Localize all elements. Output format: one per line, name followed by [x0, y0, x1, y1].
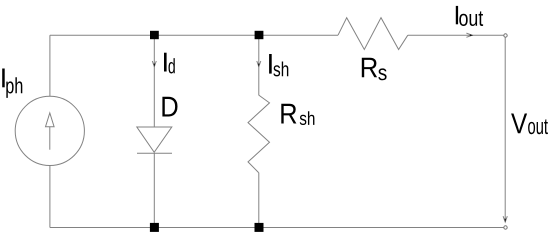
- node square bottom shunt: [255, 223, 264, 232]
- wire shunt branch upper: [258, 35, 260, 95]
- arrow I_d wings: [152, 61, 156, 67]
- label Ish (sh): [273, 62, 288, 77]
- label Vout (out): [528, 119, 548, 134]
- wire left side upper: [49, 35, 51, 96]
- label Rsh (sh): [300, 111, 315, 125]
- label Iout (out): [459, 11, 483, 26]
- node square top diode: [150, 31, 159, 39]
- node square top shunt: [255, 31, 264, 39]
- output terminal bottom: [504, 226, 507, 229]
- label Rs (s): [378, 68, 386, 80]
- node square bottom diode: [150, 223, 159, 232]
- resistor R_sh zigzag: [248, 95, 270, 173]
- arrow V_out wings: [503, 216, 507, 222]
- label Rs (R): [362, 58, 377, 77]
- label Iph (ph): [6, 77, 22, 98]
- wire top: [50, 34, 338, 36]
- label Vout (V): [511, 114, 527, 134]
- wire left side lower: [49, 166, 51, 228]
- label Iout (I): [456, 6, 458, 24]
- resistor R_s zigzag: [338, 18, 408, 50]
- wire diode branch lower: [153, 153, 155, 228]
- diode D cathode bar: [137, 152, 172, 154]
- label Id (d): [169, 58, 175, 73]
- current source I_ph circle: [15, 96, 84, 165]
- arrow I_out wings: [466, 33, 472, 37]
- wire diode branch upper: [153, 35, 155, 127]
- arrow I_sh wings: [257, 61, 261, 67]
- arrow I_d black tip: [154, 64, 155, 67]
- wire shunt branch lower: [258, 173, 260, 228]
- current source arrow: [46, 113, 55, 127]
- wire bottom: [50, 227, 504, 229]
- label Iph (I): [2, 69, 4, 88]
- label Rsh (R): [281, 104, 296, 124]
- arrow V_out black tip: [505, 219, 506, 222]
- diode D triangle: [137, 127, 172, 152]
- label Id (I): [164, 53, 167, 72]
- label D: [162, 97, 177, 117]
- wire right side: [504, 37, 506, 222]
- label Ish (I): [269, 54, 272, 74]
- output terminal top: [504, 34, 507, 37]
- arrow I_out black tip: [470, 34, 474, 36]
- wire top-right to output terminal: [408, 34, 504, 36]
- arrow I_sh black tip: [258, 64, 259, 67]
